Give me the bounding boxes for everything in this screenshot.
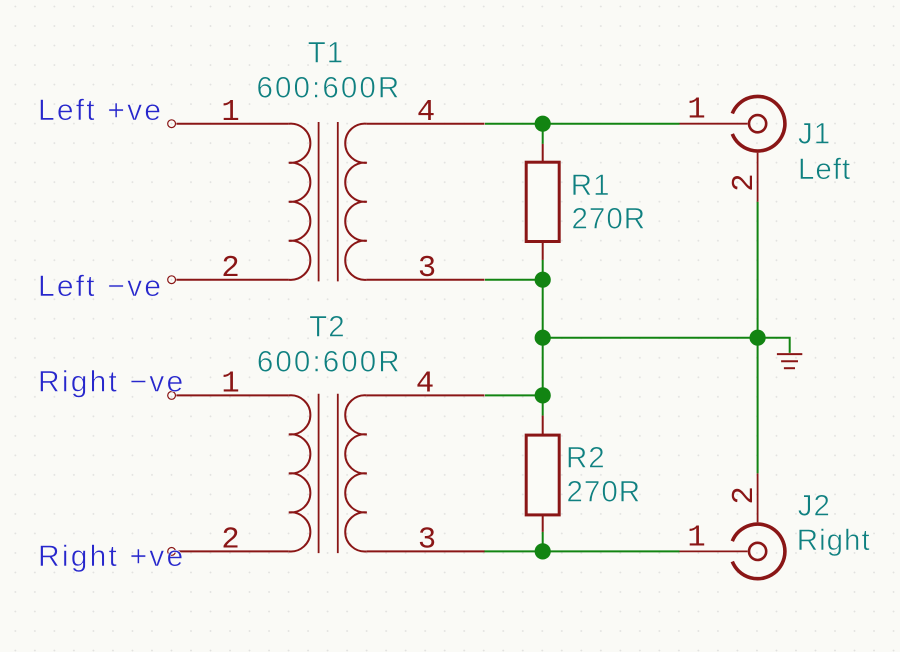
- svg-text:1: 1: [687, 521, 705, 555]
- connector J2 (RCA jack): [680, 473, 785, 578]
- T1 pin 1 open end: [168, 120, 176, 128]
- svg-text:2: 2: [728, 173, 762, 191]
- svg-text:1: 1: [687, 93, 705, 127]
- svg-text:4: 4: [417, 96, 435, 130]
- svg-text:3: 3: [418, 524, 436, 558]
- wire: T2 pin4 to junction: [485, 394, 543, 396]
- wire: J1 pin2 down through bus to J2 pin2: [757, 202, 759, 474]
- svg-text:Right +ve: Right +ve: [38, 540, 185, 573]
- svg-text:R1: R1: [571, 169, 611, 202]
- ground symbol: [777, 354, 802, 368]
- svg-text:R2: R2: [566, 441, 606, 474]
- svg-text:600:600R: 600:600R: [257, 346, 402, 379]
- T2 pin 1 open end: [168, 392, 176, 400]
- svg-text:1: 1: [221, 368, 239, 402]
- wire: T1 secondary top to J1 pin1 (Left hot net): [485, 123, 680, 125]
- svg-text:T2: T2: [309, 311, 345, 344]
- resistor R2: [526, 416, 559, 532]
- svg-text:J2: J2: [798, 490, 831, 523]
- svg-text:T1: T1: [308, 37, 344, 70]
- svg-text:2: 2: [728, 486, 762, 504]
- svg-text:2: 2: [221, 252, 239, 286]
- junction mid bus right at jack column: [750, 330, 766, 346]
- T2 pin 2 open end: [168, 548, 176, 556]
- junction at T2 pin4 / R2 top: [535, 387, 551, 403]
- junction mid bus left: [535, 330, 551, 346]
- wire: stub junction to R1 top: [542, 124, 544, 144]
- junction at T1 pin3 / R1 bottom: [535, 272, 551, 288]
- svg-text:2: 2: [221, 524, 239, 558]
- svg-text:600:600R: 600:600R: [257, 72, 402, 105]
- svg-text:270R: 270R: [567, 475, 642, 508]
- resistor R1: [526, 144, 559, 260]
- wire: middle ground bus to ground symbol: [543, 338, 790, 353]
- svg-text:Left: Left: [798, 153, 851, 186]
- T1 pin 2 open end: [168, 276, 176, 284]
- svg-text:270R: 270R: [572, 203, 647, 236]
- svg-text:J1: J1: [798, 118, 831, 151]
- transformer T1: [176, 122, 484, 281]
- wire: R2 bottom stub to junction: [542, 532, 544, 552]
- junction at T1 pin4 / R1 top: [535, 116, 551, 132]
- connector J1 (RCA jack): [680, 96, 785, 201]
- svg-text:1: 1: [221, 96, 239, 130]
- wire: T2 pin3 to J2 pin1 (Right hot net): [484, 550, 680, 552]
- wire: T1 pin3 to R1 bottom junction: [485, 279, 543, 281]
- wire: vertical R1 bottom through mid bus to R2 top: [542, 260, 544, 416]
- transformer T2: [176, 394, 484, 553]
- svg-text:Left −ve: Left −ve: [38, 270, 163, 303]
- svg-text:3: 3: [418, 252, 436, 286]
- svg-text:Left +ve: Left +ve: [38, 94, 163, 127]
- junction at T2 pin3 / R2 bottom: [535, 543, 551, 559]
- svg-text:Right −ve: Right −ve: [38, 365, 185, 398]
- svg-text:4: 4: [416, 368, 434, 402]
- svg-text:Right: Right: [797, 524, 871, 557]
